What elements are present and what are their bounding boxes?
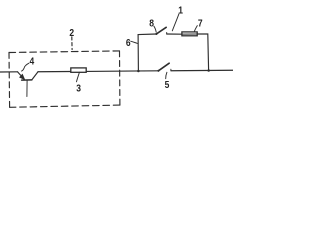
blade [156, 27, 166, 34]
node junction at bottom of branch 6 [137, 70, 140, 73]
leader for label 8 [154, 26, 156, 32]
collector lead [32, 72, 38, 80]
svg-text:4: 4 [30, 56, 35, 67]
base bar [22, 79, 32, 81]
wire: resistor 3 to switch 5 pivot [86, 70, 158, 73]
svg-text:8: 8 [149, 18, 154, 29]
pivot dot [155, 33, 157, 35]
wire: collector to resistor 3 [38, 71, 71, 73]
leader for label 5 [166, 72, 167, 78]
fixed contact tick [166, 33, 168, 35]
emitter arrow (points into base bar: PNP) [20, 74, 25, 79]
switch S5 [157, 63, 171, 72]
wire: resistor 7 to top-right corner and down [197, 34, 209, 71]
leader for label 4 [22, 63, 29, 71]
resistor R3 [71, 68, 86, 72]
wire: left rail stub entering box [0, 71, 18, 73]
pivot dot [157, 70, 159, 72]
leader for label 2 (dashed) [71, 37, 73, 50]
leader for label 6 [131, 41, 138, 43]
svg-text:7: 7 [198, 18, 203, 29]
leader for label 7 [194, 26, 197, 32]
switch S8 [155, 27, 166, 35]
svg-text:5: 5 [165, 79, 170, 90]
leader for label 1 [172, 14, 179, 31]
emitter lead [18, 72, 24, 79]
wire: top wire to switch 8 [138, 33, 156, 36]
base stub down [26, 80, 28, 96]
svg-text:6: 6 [126, 37, 131, 48]
transistor Q 4 [18, 72, 38, 97]
wire: left vertical branch (6) [137, 35, 139, 71]
svg-text:3: 3 [76, 83, 81, 94]
wire: switch 8 to resistor 7 [167, 33, 182, 35]
wire: switch 5 to right edge [171, 69, 233, 72]
dashed enclosure box 2 [9, 51, 120, 107]
resistor R7 [182, 32, 197, 36]
fixed contact tick [170, 69, 172, 71]
node junction at bottom of right vertical [207, 69, 210, 72]
leader for label 3 [77, 72, 80, 82]
blade [158, 63, 169, 71]
